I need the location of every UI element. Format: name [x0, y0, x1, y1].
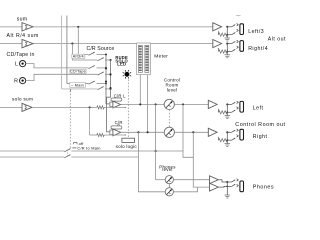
svg-text:sum: sum — [17, 16, 28, 22]
svg-text:Left: Left — [253, 106, 264, 112]
svg-text:Control Room out: Control Room out — [235, 122, 285, 128]
svg-text:CD/Tape in: CD/Tape in — [7, 52, 35, 58]
svg-text:level: level — [167, 87, 178, 92]
svg-text:– Main: – Main — [71, 84, 84, 88]
svg-text:solo logic: solo logic — [116, 144, 138, 149]
svg-text:solo sum: solo sum — [12, 97, 33, 103]
svg-text:CD/Tape: CD/Tape — [70, 70, 86, 74]
svg-text:R: R — [14, 79, 18, 85]
svg-text:C/R to Main: C/R to Main — [77, 146, 100, 151]
svg-text:L: L — [15, 62, 18, 68]
svg-text:Right/4: Right/4 — [248, 46, 268, 52]
svg-text:Phones: Phones — [253, 184, 274, 190]
svg-text:C/R Source: C/R Source — [87, 46, 115, 52]
svg-text:level: level — [162, 167, 172, 172]
svg-text:Alt out: Alt out — [268, 36, 286, 42]
svg-text:Meter: Meter — [154, 54, 168, 60]
svg-text:Alt R/4 sum: Alt R/4 sum — [7, 33, 39, 39]
svg-text:Alt3/4: Alt3/4 — [73, 55, 84, 59]
svg-text:Left/3: Left/3 — [248, 29, 264, 35]
svg-text:LED: LED — [117, 62, 126, 67]
svg-text:Right: Right — [253, 134, 268, 140]
